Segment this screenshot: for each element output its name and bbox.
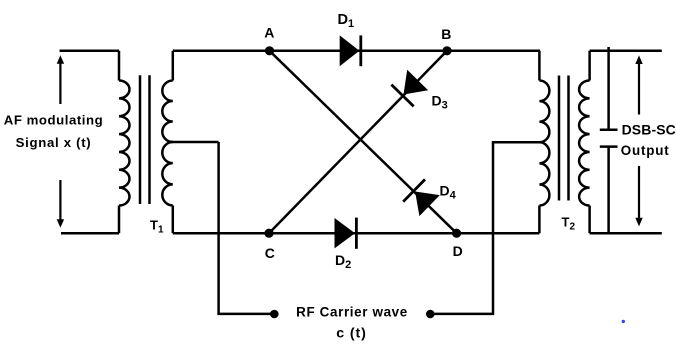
svg-text:Output: Output	[621, 143, 670, 158]
RF terminal right	[426, 310, 435, 319]
T1 primary top wire	[60, 50, 120, 53]
svg-text:D1: D1	[338, 12, 355, 30]
diode D2	[335, 218, 356, 248]
svg-text:B: B	[441, 26, 451, 42]
svg-text:Signal x (t): Signal x (t)	[16, 135, 92, 150]
T1 center tap wire	[172, 141, 219, 144]
svg-text:D2: D2	[335, 252, 351, 271]
T2 core	[559, 76, 569, 201]
svg-text:C: C	[265, 245, 275, 261]
svg-text:c (t): c (t)	[336, 326, 367, 342]
output indicator arrow	[638, 62, 640, 219]
node A	[265, 46, 274, 55]
T1 tap down wire	[219, 142, 271, 314]
white mask behind AF text	[0, 104, 112, 180]
svg-text:A: A	[264, 24, 274, 40]
output terminal line with plates	[607, 47, 610, 233]
node C	[264, 229, 273, 238]
output top wire	[590, 50, 662, 53]
svg-text:D: D	[453, 243, 463, 259]
T2 tap down wire	[434, 142, 541, 314]
T2 primary winding (center-tapped)	[538, 51, 541, 81]
node B	[442, 46, 451, 55]
output bottom wire	[590, 232, 662, 235]
T2 secondary winding	[588, 51, 591, 81]
svg-text:D3: D3	[432, 93, 448, 112]
white mask behind DSB-SC text	[619, 115, 676, 167]
diagonal wire A-D	[270, 51, 457, 233]
bottom wire C-D	[173, 232, 540, 235]
svg-text:T2: T2	[562, 215, 576, 233]
node D	[452, 229, 461, 238]
diode D1	[340, 35, 360, 66]
svg-text:T1: T1	[150, 218, 164, 236]
svg-text:AF modulating: AF modulating	[4, 113, 103, 128]
stray blue dot	[622, 320, 625, 323]
svg-text:D4: D4	[440, 183, 457, 202]
top wire A-B	[173, 50, 540, 53]
diode D4	[415, 192, 440, 217]
svg-text:DSB-SC: DSB-SC	[622, 121, 676, 137]
T1 secondary winding (center-tapped)	[172, 51, 175, 81]
diode D3	[404, 70, 429, 95]
AF input arrow (double-headed)	[59, 62, 61, 220]
diagonal wire B-C	[269, 51, 447, 233]
RF terminal left	[270, 310, 279, 319]
T1 primary winding	[118, 51, 121, 81]
T1 core	[140, 75, 150, 204]
svg-text:RF Carrier wave: RF Carrier wave	[296, 304, 408, 319]
T1 primary bottom wire	[61, 232, 119, 235]
